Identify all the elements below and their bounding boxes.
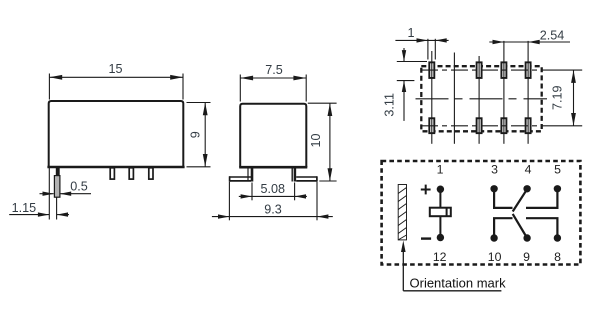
dim 2.54 lines: [489, 41, 570, 43]
svg-text:3: 3: [491, 163, 498, 177]
svg-text:7.5: 7.5: [265, 63, 283, 77]
column center line pin1: [431, 51, 433, 144]
column center line pin2 (unused): [453, 53, 455, 144]
contact pin 3: [494, 189, 512, 208]
movable contact arms pins 4-9: [513, 189, 527, 211]
right foot: [296, 176, 317, 178]
svg-text:8: 8: [554, 250, 561, 264]
contact pin 8: [526, 218, 557, 238]
pad 1 top: [429, 62, 434, 78]
contact pin 5: [526, 189, 557, 208]
dim 1.15 arrows: [38, 212, 49, 216]
pad 9 bottom: [501, 118, 506, 133]
stub pin 3: [149, 168, 153, 179]
schematic dashed box: [382, 161, 581, 265]
bottom row center chain line: [421, 125, 542, 127]
dim 7.5 extension lines: [240, 75, 306, 102]
dim 2.54 arrows: [493, 40, 504, 44]
dim 10 arrows: [328, 103, 333, 116]
svg-text:1: 1: [407, 26, 414, 40]
stub pin 1: [110, 168, 114, 179]
contact pin 10: [494, 218, 512, 238]
dim 1 (pad width) lines: [395, 39, 448, 60]
dim 10 extension lines: [308, 103, 337, 181]
horizontal center chain line: [416, 98, 548, 100]
svg-text:10: 10: [309, 133, 323, 147]
coil node pin 1: [437, 186, 444, 193]
plus sign: [421, 185, 431, 195]
column center line pin5: [527, 41, 529, 144]
pad 8 bottom: [526, 118, 531, 133]
svg-text:9: 9: [523, 250, 530, 264]
dim 9.3 extension lines: [212, 182, 333, 220]
svg-text:5.08: 5.08: [261, 182, 286, 196]
pad 3 top: [477, 62, 482, 78]
pad 5 top: [526, 62, 531, 78]
svg-text:10: 10: [488, 250, 502, 264]
coil wire: [439, 189, 441, 237]
stub pin 2: [129, 168, 133, 179]
long left pin (gray lower part): [54, 176, 60, 198]
svg-text:3.11: 3.11: [382, 93, 396, 117]
svg-text:12: 12: [433, 250, 447, 264]
right leg: [291, 168, 293, 182]
svg-text:7.19: 7.19: [550, 86, 564, 111]
svg-text:15: 15: [108, 62, 122, 76]
svg-text:9.3: 9.3: [264, 202, 282, 216]
minus sign: [421, 237, 431, 239]
dim 7.19 line: [573, 70, 575, 126]
svg-text:4: 4: [525, 163, 532, 177]
dim 9.3 arrows: [218, 214, 229, 218]
dim 9 arrows: [203, 103, 208, 116]
svg-text:1.15: 1.15: [12, 201, 37, 215]
relay body (end view): [239, 104, 307, 168]
column center line pin4: [503, 41, 505, 144]
dim 7.19 arrows: [571, 70, 576, 83]
dim 9 extension lines: [187, 103, 211, 167]
svg-text:5: 5: [554, 163, 561, 177]
orientation mark (hatched bar): [398, 185, 406, 240]
dim 1.15 extension lines: [9, 168, 69, 220]
left foot: [229, 176, 251, 178]
pad 4 top: [501, 62, 506, 78]
dim 0.5 leader lines: [40, 193, 92, 195]
svg-text:9: 9: [188, 131, 202, 138]
dim 7.5 arrows: [240, 76, 253, 81]
pad 12 bottom: [429, 118, 434, 133]
dim 3.11 lines: [397, 48, 427, 121]
left leg: [247, 168, 249, 182]
top row center chain line: [421, 69, 542, 71]
svg-text:0.5: 0.5: [70, 180, 88, 194]
svg-text:1: 1: [437, 163, 444, 177]
pad 10 bottom: [477, 118, 482, 133]
orientation mark label underline: [403, 290, 501, 292]
dim 5.08 extension lines: [239, 183, 307, 201]
dim 5.08 arrows: [241, 194, 252, 198]
dim 1 arrows: [417, 38, 428, 42]
dim 15 extension lines: [49, 74, 183, 100]
footprint dashed outline: [421, 66, 541, 131]
dim 3.11 arrows: [402, 50, 406, 61]
coil symbol: [430, 208, 451, 217]
relay body (side view): [47, 101, 184, 167]
dim 0.5 arrows: [43, 192, 54, 196]
svg-text:2.54: 2.54: [540, 29, 565, 43]
coil node pin 12: [437, 234, 444, 241]
orientation mark leader arrow: [402, 244, 404, 291]
long left pin (black upper part): [56, 167, 60, 179]
column center line pin3: [478, 56, 480, 144]
dim 15 arrows: [49, 75, 62, 80]
svg-text:Orientation mark: Orientation mark: [410, 276, 507, 291]
